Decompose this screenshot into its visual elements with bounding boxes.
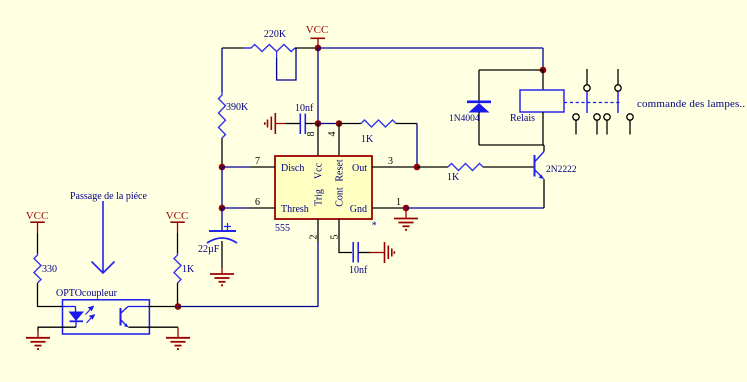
label Relais [510, 113, 535, 124]
resistor R 390K [219, 92, 226, 138]
wire: LED cathode out to ground [38, 327, 76, 337]
svg-text:3: 3 [388, 156, 393, 167]
resistor R 1K (pullup) [174, 253, 181, 283]
wire: 330 down to opto LED [38, 283, 64, 307]
svg-text:*: * [372, 221, 377, 232]
relay contact armature 2 [617, 92, 619, 114]
wire: 10nf to pin8 node [305, 123, 318, 125]
pin number 5 [330, 235, 341, 240]
svg-text:2N2222: 2N2222 [546, 165, 577, 175]
ground (opto LED) [26, 338, 50, 349]
LED arrows [86, 306, 95, 323]
arrow (passage) [92, 201, 115, 273]
label 390K [226, 102, 249, 113]
svg-text:Disch: Disch [281, 163, 304, 174]
node: pin6 junction dot [219, 205, 226, 212]
op-amp/IC U1 555 body [275, 156, 372, 219]
svg-text:Gnd: Gnd [350, 204, 367, 215]
svg-text:7: 7 [255, 156, 260, 167]
svg-text:1: 1 [396, 197, 401, 208]
node: relay top junction dot [540, 67, 547, 74]
wire: VCC node to relay branch [318, 47, 543, 49]
svg-text:6: 6 [255, 197, 260, 208]
ground (rotated, left of 10nf) [265, 113, 285, 134]
wire: opto collector to trig node [148, 306, 178, 308]
label 10nf (top) [295, 103, 314, 114]
pin number 6 [255, 197, 260, 208]
wire: ground to C 10nf [285, 123, 300, 125]
resistor R 330 [34, 253, 41, 283]
pin 1 wire (Gnd) [372, 207, 406, 209]
contact terminal circle (top 1) [584, 69, 590, 91]
relay dashed actuator line [564, 102, 620, 104]
svg-text:22µF: 22µF [198, 244, 220, 255]
ground (rotated right, pin5 cap) [385, 242, 395, 263]
pin 3 wire (Out) [372, 166, 417, 168]
pin 2 stub [317, 219, 319, 242]
svg-text:1K: 1K [361, 134, 374, 145]
pin number 8 [306, 132, 317, 137]
svg-text:Cont: Cont [335, 187, 346, 207]
svg-text:220K: 220K [264, 29, 287, 40]
wire: top-left corner to 220K [222, 47, 243, 49]
resistor R 1K (reset) [361, 120, 396, 127]
pin number 2 [309, 235, 320, 240]
capacitor C 22uF (polarized) [207, 223, 237, 243]
wire: 390K to pin7 node [221, 138, 223, 167]
wire: 1K to transistor base [483, 166, 534, 168]
ground (opto emitter) [166, 338, 190, 349]
svg-text:Trig: Trig [314, 189, 325, 206]
wire: pin7 node to pin6 node [221, 167, 223, 208]
wire: pin 2 down to trig rail [317, 242, 319, 307]
wire: VCC to 1K pullup [177, 233, 179, 253]
node: VCC junction dot [315, 45, 322, 52]
pin 8 stub [317, 124, 319, 157]
wire: 10nf to ground (right) [358, 252, 385, 254]
wire: 22uF to ground [221, 241, 223, 274]
resistor R 220K (trimmer) [243, 45, 296, 81]
contact terminal circle (bottom 3) [604, 114, 610, 135]
node: gnd junction dot [403, 205, 410, 212]
wire: pin4 node to 1K [339, 123, 361, 125]
node: pin8 junction dot [315, 120, 322, 127]
label Passage de la piece [70, 191, 147, 202]
svg-text:commande des lampes..: commande des lampes.. [637, 98, 745, 110]
svg-text:Thresh: Thresh [281, 204, 309, 215]
resistor R 1K (base) [448, 164, 483, 171]
diode D 1N4004 [467, 70, 491, 145]
pin 5 stub [339, 219, 352, 253]
node: pin4 junction dot [336, 120, 343, 127]
label 22uF [198, 244, 220, 255]
label OPTOcoupleur [56, 288, 118, 299]
node: out junction dot [414, 164, 421, 171]
label 1K (base) [447, 172, 460, 183]
contact terminal circle (bottom 4) [627, 114, 633, 135]
label 330 [42, 264, 57, 275]
svg-text:1K: 1K [447, 172, 460, 183]
label asterisk [372, 221, 377, 232]
phototransistor inside opto [121, 307, 149, 328]
pin number 1 [396, 197, 401, 208]
label 555 [275, 223, 290, 234]
wire: 1K down to trig node [177, 283, 179, 307]
LED inside opto [63, 307, 85, 328]
relay coil K1 [520, 70, 564, 145]
wire: emitter down to gnd rail [543, 179, 545, 208]
svg-text:Relais: Relais [510, 113, 535, 124]
wire: 1K right then down to out node [396, 124, 417, 168]
contact terminal circle (top 2) [615, 69, 621, 91]
wire: pin8 node to pin4 node [318, 123, 339, 125]
svg-text:1N4004: 1N4004 [449, 114, 480, 124]
power VCC (1K branch) [166, 210, 189, 233]
contact terminal circle (bottom 1) [573, 114, 579, 135]
wire: trig node to pin2 rail [178, 306, 318, 308]
wire: opto emitter to ground [129, 327, 179, 337]
wire: down to relay node [542, 48, 544, 70]
wire: collector up to relay [543, 145, 545, 152]
label 1K (reset) [361, 134, 374, 145]
wire: gnd node to emitter [406, 207, 544, 209]
pin 7 wire [222, 166, 275, 168]
node: trig junction dot [175, 303, 182, 310]
capacitor C 10nf (pin 8 decoupling) [300, 114, 305, 135]
ground (below 22uF) [210, 274, 234, 285]
relay contact armature 1 [586, 92, 588, 114]
svg-text:VCC: VCC [26, 210, 49, 222]
wire: relay node to diode top [479, 69, 543, 71]
svg-text:Reset: Reset [335, 159, 346, 181]
label 1K (pullup) [182, 264, 195, 275]
svg-text:1K: 1K [182, 264, 195, 275]
pin 6 wire [222, 207, 275, 209]
wire: out node to base 1K [417, 166, 448, 168]
svg-text:5: 5 [330, 235, 341, 240]
svg-text:10nf: 10nf [349, 265, 368, 276]
pin 4 stub [338, 124, 340, 157]
node: pin7 junction dot [219, 164, 226, 171]
label 10nf (pin 5) [349, 265, 368, 276]
power VCC (330 branch) [26, 210, 49, 233]
label 2N2222 [546, 165, 577, 175]
label commande des lampes.. [637, 98, 745, 110]
pin number 4 [327, 132, 338, 137]
svg-text:VCC: VCC [306, 24, 329, 36]
wire: pin6 node down to 22uF [221, 208, 223, 231]
transistor Q1 2N2222 [535, 152, 545, 180]
svg-text:VCC: VCC [166, 210, 189, 222]
ground (below pin 1) [394, 208, 418, 230]
capacitor C 10nf (pin 5) [353, 242, 358, 263]
svg-text:OPTOcoupleur: OPTOcoupleur [56, 288, 118, 299]
pin number 3 [388, 156, 393, 167]
wire: VCC to 330 [37, 233, 39, 253]
svg-text:4: 4 [327, 132, 338, 137]
svg-text:8: 8 [306, 132, 317, 137]
svg-text:330: 330 [42, 264, 57, 275]
svg-text:390K: 390K [226, 102, 249, 113]
wire: left rail from corner down to 390K [221, 48, 223, 92]
power VCC (top) [306, 24, 329, 48]
label 220K [264, 29, 287, 40]
pin number 7 [255, 156, 260, 167]
svg-text:Vcc: Vcc [314, 162, 325, 179]
contact terminal circle (bottom 2) [594, 114, 600, 135]
label 1N4004 [449, 114, 480, 124]
wire: diode bottom to collector rail [479, 144, 544, 146]
wire: 220K right to VCC node [295, 47, 318, 49]
optocoupler U2 box [63, 300, 150, 334]
svg-text:10nf: 10nf [295, 103, 314, 114]
wire: VCC node down to pin8 node [317, 48, 319, 124]
svg-text:555: 555 [275, 223, 290, 234]
svg-text:Passage de la piéce: Passage de la piéce [70, 191, 147, 202]
svg-text:2: 2 [309, 235, 320, 240]
svg-text:Out: Out [352, 163, 367, 174]
